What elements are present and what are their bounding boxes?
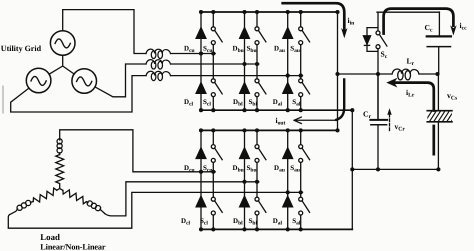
- wire load phase a riser and bottom wire: [8, 192, 302, 228]
- svg-text:Dbl: Dbl: [233, 217, 243, 227]
- switch Sal: [299, 79, 310, 97]
- annotation icc thick arrow: [384, 9, 454, 34]
- wire Y-node of grid: [49, 55, 74, 74]
- annotation iout curve from link down to arrow: [336, 79, 344, 119]
- svg-text:Sal: Sal: [292, 217, 301, 227]
- inductor load left branch: [17, 200, 31, 210]
- switch Sc: [376, 31, 387, 49]
- wire bridge2 bottom rail with right corner up: [201, 228, 352, 230]
- inductor line coil phase c: [146, 49, 171, 58]
- inductor Lr coil: [392, 69, 419, 80]
- wire load phase b riser: [105, 182, 259, 216]
- switch Sau: [299, 27, 310, 45]
- svg-text:Dcl: Dcl: [181, 217, 191, 227]
- capacitor Cc bottom lead: [438, 47, 440, 74]
- wire switch leg verticals bridge2: [213, 130, 300, 229]
- svg-text:Sbu: Sbu: [247, 164, 257, 174]
- wire bridge1 top rail: [201, 11, 338, 13]
- svg-text:Dal: Dal: [273, 98, 283, 108]
- svg-text:iLr: iLr: [406, 88, 415, 99]
- annotation iin thick arrow: [283, 3, 345, 29]
- svg-text:Sau: Sau: [290, 164, 300, 174]
- wire grid phase a: left source down to bottom wire and riser: [11, 76, 146, 112]
- scan artifact line left edge: [2, 86, 4, 113]
- svg-text:Dal: Dal: [273, 217, 283, 227]
- svg-text:iin: iin: [348, 16, 356, 27]
- svg-text:Dbu: Dbu: [233, 164, 244, 174]
- svg-text:Sbu: Sbu: [247, 44, 257, 54]
- AC source right: [72, 69, 97, 94]
- inductor line coil phase a: [146, 71, 171, 80]
- wire grid phase b: right source to riser: [95, 64, 146, 97]
- wire link right vertical (bridge1 bottom rail to bridge2 bottom rail): [351, 110, 353, 229]
- wire diode leg verticals bridge2: [201, 130, 288, 229]
- switch Sau (bridge2): [299, 145, 310, 163]
- capacitor Cr bottom lead: [377, 125, 379, 170]
- cathode bar of Sc diode: [364, 44, 369, 46]
- capacitor Cr plates: [370, 119, 387, 121]
- junction dots bridge2 top rail: [199, 128, 340, 132]
- switch Scl (bridge2): [211, 197, 222, 215]
- switch Sbl (bridge2): [255, 197, 266, 215]
- svg-text:Scl: Scl: [203, 98, 211, 108]
- wire bridge2 top rail: [201, 129, 338, 131]
- labels bridge2 upper row: [184, 164, 300, 174]
- wire phase b to bridge1 leg b: [171, 63, 259, 65]
- diode Dbu (bridge2): [240, 148, 250, 159]
- node dots bottom line: [350, 167, 354, 171]
- svg-text:iout: iout: [276, 116, 286, 127]
- diode Dbl (bridge2): [240, 196, 250, 207]
- wire load phase c: riser and top connection: [60, 130, 216, 172]
- switch Sbu (bridge2): [255, 145, 266, 163]
- switch Sbu: [255, 27, 266, 45]
- diode of Sc (anti-parallel, pointing down): [363, 36, 370, 44]
- annotation iout thin arrow: [294, 117, 336, 123]
- capacitor Cc top lead: [438, 12, 440, 36]
- node load Y center: [57, 189, 63, 191]
- labels bridge2 lower row: [181, 217, 301, 227]
- wire bottom node line: [352, 168, 438, 170]
- capacitor Cs top lead: [437, 74, 439, 111]
- wire Lr right lead to Cc/Cs node: [419, 73, 438, 75]
- switch Scu (bridge2): [211, 145, 222, 163]
- svg-text:icc: icc: [460, 21, 468, 32]
- resistor load right branch: [63, 190, 87, 204]
- diode Dbu: [240, 28, 250, 39]
- svg-text:vCr: vCr: [395, 122, 406, 133]
- svg-text:Dbl: Dbl: [233, 98, 243, 108]
- junction dots bridge1 bottom rail: [199, 108, 354, 112]
- switch Sal (bridge2): [299, 197, 310, 215]
- diode Dcu (bridge2): [196, 148, 206, 159]
- node dot Lr/Cc/Cs junction: [435, 72, 439, 76]
- wire switch leg verticals bridge1: [213, 12, 300, 110]
- junction dots bridge1 phase connections: [199, 51, 303, 77]
- capacitor Cr top lead: [377, 74, 379, 120]
- diode Dcu: [196, 28, 206, 39]
- labels bridge1 upper row: [184, 44, 300, 54]
- wire grid phase c: top source up and right to inductor row: [63, 10, 146, 54]
- junction dots bridge2 phase connections: [199, 170, 303, 195]
- diode Dbl: [240, 83, 250, 94]
- switch Scu: [211, 27, 222, 45]
- inductor load top branch: [57, 139, 62, 155]
- svg-text:Sal: Sal: [292, 98, 301, 108]
- svg-text:Dcl: Dcl: [184, 98, 194, 108]
- svg-text:Scu: Scu: [203, 44, 212, 54]
- inductor load right branch: [87, 201, 100, 211]
- svg-text:Dcu: Dcu: [184, 44, 195, 54]
- switch Scl: [211, 79, 222, 97]
- wire link left vertical (top rail to bridge2 top rail): [337, 12, 339, 130]
- capacitor Cs hatched box: [425, 110, 459, 122]
- switch Sbl: [255, 79, 266, 97]
- diode Dau: [283, 28, 293, 39]
- node dot link mid at Sc/Cr branch: [376, 72, 380, 76]
- AC source left: [26, 68, 51, 93]
- svg-text:Dau: Dau: [274, 44, 285, 54]
- svg-text:Sc: Sc: [381, 50, 388, 61]
- inductor line coil phase b: [146, 60, 171, 69]
- svg-text:Sbl: Sbl: [249, 217, 258, 227]
- wire link mid node horizontal: [338, 73, 393, 75]
- junction dots bridge2 bottom rail: [199, 227, 303, 231]
- annotation vCr dashed arrow: [387, 108, 391, 130]
- svg-text:Cr: Cr: [363, 110, 371, 121]
- resistor load left branch: [33, 188, 57, 202]
- diode Dal (bridge2): [283, 196, 293, 207]
- wire phase a to bridge1 leg a: [171, 75, 303, 77]
- AC source top: [50, 31, 75, 56]
- wire right branch coil to riser: [86, 202, 104, 214]
- diode Dal: [283, 83, 293, 94]
- labels bridge1 lower row: [184, 98, 301, 108]
- svg-text:vCs: vCs: [447, 91, 458, 102]
- svg-text:Dau: Dau: [274, 164, 285, 174]
- wire phase c to bridge1 leg c: [171, 53, 216, 55]
- svg-text:Sbl: Sbl: [249, 98, 258, 108]
- svg-text:Utility Grid: Utility Grid: [1, 44, 42, 53]
- diode Dau (bridge2): [283, 148, 293, 159]
- wire bridge1 bottom rail: [201, 109, 352, 111]
- svg-text:Linear/Non-Linear: Linear/Non-Linear: [40, 242, 106, 251]
- junction dots bridge1 top rail: [199, 10, 340, 14]
- diode Dcl (bridge2): [196, 196, 206, 207]
- svg-text:Cc: Cc: [425, 23, 433, 34]
- svg-text:Load: Load: [40, 232, 60, 242]
- capacitor Cs bottom lead: [437, 122, 439, 170]
- wire diode leg verticals bridge1: [201, 12, 288, 110]
- wire Sc branch verticals and stubs: [367, 12, 378, 120]
- capacitor Cc plates: [427, 35, 451, 37]
- svg-text:Lr: Lr: [407, 57, 415, 68]
- diode Dcl: [196, 83, 206, 94]
- annotation iLr thick arrow: [394, 83, 434, 155]
- svg-text:Sau: Sau: [290, 44, 300, 54]
- node dot link mid left: [335, 72, 339, 76]
- wire left branch coil to corner: [10, 202, 34, 215]
- resistor load top branch: [56, 155, 64, 189]
- svg-text:Dbu: Dbu: [233, 44, 244, 54]
